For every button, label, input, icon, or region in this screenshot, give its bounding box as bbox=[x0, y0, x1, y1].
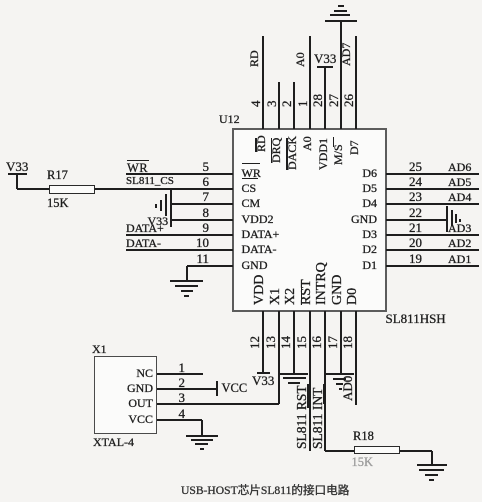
value 15K (R18) bbox=[352, 456, 374, 469]
pin label WR bbox=[242, 167, 261, 179]
wire pin1 A0 up bbox=[309, 36, 311, 129]
V33 tap bars (pin8) bbox=[165, 194, 167, 216]
pin label RD bbox=[255, 135, 267, 152]
pin label GND bbox=[242, 259, 268, 271]
overline WR net label bbox=[127, 160, 149, 162]
power label VCC bbox=[222, 382, 248, 395]
wire R18 to ground bbox=[400, 450, 432, 452]
wire pin25 bbox=[386, 173, 480, 175]
wire pin20 bbox=[386, 249, 480, 251]
pin number 13 bbox=[264, 336, 277, 349]
crystal oscillator X1 body bbox=[94, 356, 157, 435]
pin label A0 bbox=[301, 136, 313, 151]
ground pin17 dot bbox=[339, 388, 342, 390]
overline INT net label bbox=[323, 384, 325, 404]
pin label GND bbox=[257, 213, 377, 225]
pin label DATA+ bbox=[242, 228, 280, 240]
V33 stem left bbox=[8, 173, 28, 175]
wire pin23 bbox=[386, 203, 480, 205]
overline RST net label bbox=[307, 384, 309, 408]
wire pin14 X2 down bbox=[293, 311, 295, 374]
overline RD bbox=[255, 138, 257, 153]
wire pin28 VDD1 up bbox=[324, 67, 326, 129]
net label DATA- bbox=[126, 237, 161, 249]
VCC power bar bbox=[216, 381, 219, 397]
overline DACK bbox=[286, 138, 288, 170]
pin label INTRQ bbox=[315, 262, 329, 305]
net label SL811_CS bbox=[126, 176, 174, 187]
pin label DATA- bbox=[242, 243, 277, 255]
wire pin12 VDD down bbox=[262, 311, 264, 372]
wire pin13 X1 to crystal OUT bbox=[278, 311, 280, 404]
power V33 (pin12) bbox=[252, 374, 274, 387]
overline WR bbox=[242, 163, 260, 165]
net label DATA+ bbox=[126, 222, 164, 234]
wire pin7 CM bbox=[171, 203, 233, 205]
pin number 14 bbox=[279, 336, 292, 349]
wire X1 pin4 drop bbox=[201, 420, 203, 435]
pin label OUT (X1-3) bbox=[33, 397, 153, 409]
pin number 23 bbox=[409, 190, 422, 203]
pin number 21 bbox=[409, 221, 422, 234]
overline RST internal bbox=[301, 280, 303, 305]
pin number 16 bbox=[310, 336, 323, 349]
refdes R17 bbox=[47, 169, 68, 182]
ground pin17 GND bbox=[326, 373, 354, 375]
wire pin15 RST down bbox=[309, 311, 311, 451]
net label RD (pin4) bbox=[248, 50, 260, 67]
ground top (pin27) bbox=[325, 20, 357, 22]
pin number 12 bbox=[248, 336, 261, 349]
net label AD7 (pin26) bbox=[340, 43, 352, 66]
caption bbox=[181, 485, 349, 497]
pin number X1-3 bbox=[65, 391, 185, 404]
pin number X1-1 bbox=[65, 361, 185, 374]
wire pin26 D7 up bbox=[355, 36, 357, 129]
pin number X1-4 bbox=[65, 407, 185, 420]
refdes U12 bbox=[219, 113, 240, 125]
wire X1 pin1 NC bbox=[157, 373, 203, 375]
pin number 5 bbox=[89, 160, 209, 173]
value 15K (R17) bbox=[47, 197, 69, 210]
pin label D0 bbox=[346, 288, 360, 305]
pin number 4 bbox=[249, 101, 262, 108]
pin label CM bbox=[242, 197, 261, 209]
part name SL811HSH bbox=[386, 312, 446, 325]
wire pin8 VDD2 bbox=[171, 219, 233, 221]
pin number 6 bbox=[89, 175, 209, 188]
V33 bar (pin28) bbox=[317, 66, 333, 68]
ground pin11 bbox=[170, 280, 203, 282]
overline CS bbox=[242, 178, 259, 180]
net label AD0 (pin18) bbox=[341, 375, 354, 400]
net label A0 (pin1) bbox=[294, 52, 306, 67]
wire pin4 RD up bbox=[262, 36, 264, 129]
pin number 8 bbox=[89, 206, 209, 219]
wire pin27 MS to ground bbox=[340, 21, 342, 129]
IC U12 SL811HSH body bbox=[232, 128, 388, 312]
pin label VDD1 bbox=[317, 138, 329, 170]
pin label X2 bbox=[284, 288, 298, 305]
pin number 9 bbox=[89, 221, 209, 234]
pin label VDD2 bbox=[242, 213, 274, 225]
net label AD5 (pin24) bbox=[448, 176, 471, 188]
pin number 22 bbox=[409, 206, 422, 219]
pin label D4 bbox=[257, 197, 377, 209]
pin label RST bbox=[300, 279, 314, 305]
pin number 26 bbox=[342, 94, 355, 107]
wire pin10 DATA- bbox=[126, 249, 233, 251]
pin label DRQ bbox=[270, 137, 282, 162]
wire pin24 bbox=[386, 188, 480, 190]
pin number 20 bbox=[409, 236, 422, 249]
wire X1 pin2 to VCC bbox=[157, 388, 216, 390]
wire pin21 bbox=[386, 234, 480, 236]
pin number 27 bbox=[327, 94, 340, 107]
pin label X1 bbox=[269, 288, 283, 305]
pin number 15 bbox=[295, 336, 308, 349]
pin number 11 bbox=[89, 252, 209, 265]
part XTAL-4 bbox=[93, 436, 134, 448]
power V33 (left) bbox=[6, 160, 28, 173]
pin number 18 bbox=[341, 336, 354, 349]
pin number 2 bbox=[280, 101, 293, 108]
pin number 10 bbox=[89, 236, 209, 249]
wire pin22 GND right bbox=[386, 219, 448, 221]
pin number 3 bbox=[265, 101, 278, 108]
pin label DACK bbox=[286, 135, 298, 169]
ground X1 pin4 bbox=[186, 435, 218, 437]
pin label D3 bbox=[257, 228, 377, 240]
wire pin16 INTRQ to R18 bbox=[324, 311, 326, 451]
pin number 24 bbox=[409, 175, 422, 188]
wire pin6 CS from R17 bbox=[95, 188, 233, 190]
ground R18 bbox=[417, 464, 447, 466]
wire pin9 DATA+ bbox=[126, 234, 233, 236]
ground pin22 sideways bbox=[446, 206, 448, 232]
overline DRQ bbox=[271, 138, 273, 163]
net label AD1 (pin19) bbox=[448, 253, 471, 265]
wire pin2 DACK up bbox=[293, 82, 295, 129]
pin label VCC (X1-4) bbox=[33, 413, 153, 425]
pin label D7 bbox=[348, 141, 360, 156]
net label WR bbox=[127, 162, 148, 175]
wire pin5 WR bbox=[126, 173, 233, 175]
pin label D5 bbox=[257, 182, 377, 194]
wire bus pins7-8 bbox=[170, 190, 172, 227]
resistor R17 bbox=[49, 185, 95, 195]
net label SL811 RST (pin15) bbox=[295, 385, 309, 449]
net label AD3 (pin21) bbox=[448, 222, 471, 234]
pin label NC (X1-1) bbox=[33, 367, 153, 379]
wire X1 pin4 to ground bbox=[157, 419, 202, 421]
refdes R18 bbox=[353, 430, 374, 443]
wire pin19 bbox=[386, 265, 480, 267]
wire pin17 GND down bbox=[340, 311, 342, 374]
pin label D2 bbox=[257, 243, 377, 255]
net label SL811 INT (pin16) bbox=[311, 387, 325, 448]
pin label D1 bbox=[257, 259, 377, 271]
pin label M/S bbox=[332, 145, 344, 166]
wire pin11 GND bbox=[187, 265, 233, 267]
pin number 7 bbox=[89, 190, 209, 203]
refdes X1 bbox=[92, 343, 107, 355]
wire V33 to R17 bbox=[17, 188, 49, 190]
pin label GND bbox=[331, 275, 345, 305]
wire pin18 D0 down bbox=[355, 311, 357, 405]
pin number 19 bbox=[409, 252, 422, 265]
net label AD4 (pin23) bbox=[448, 191, 471, 203]
pin label GND (X1-2) bbox=[33, 382, 153, 394]
pin number 17 bbox=[326, 336, 339, 349]
pin number X1-2 bbox=[65, 376, 185, 389]
pin label VDD bbox=[253, 275, 267, 305]
ground pin14 X2 bbox=[280, 373, 308, 375]
pin number 25 bbox=[409, 160, 422, 173]
power V33 (pin8) bbox=[148, 215, 169, 227]
pin number 28 bbox=[311, 94, 324, 107]
power V33 (pin28) bbox=[314, 52, 336, 65]
pin label CS bbox=[242, 182, 257, 194]
pin number 1 bbox=[296, 101, 309, 108]
pin label D6 bbox=[257, 167, 377, 179]
overline M/S (S part) bbox=[333, 137, 335, 147]
resistor R18 bbox=[354, 446, 400, 455]
V33 bar (pin12) bbox=[257, 372, 270, 374]
net label AD2 (pin20) bbox=[448, 237, 471, 249]
net label AD6 (pin25) bbox=[448, 161, 471, 173]
wire pin3 DRQ up bbox=[278, 82, 280, 129]
wire pin11 drop bbox=[186, 266, 188, 281]
